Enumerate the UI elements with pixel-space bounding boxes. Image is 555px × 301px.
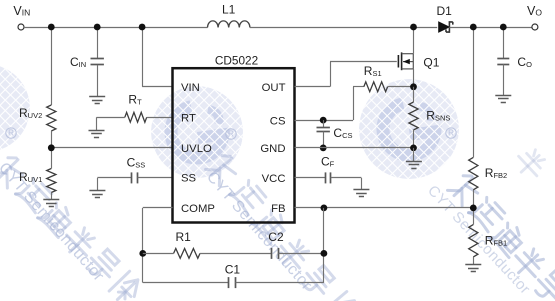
wire FB net [295, 207, 474, 209]
capacitor CF [326, 172, 331, 183]
watermark hanzi run right [447, 172, 482, 207]
svg-text:D1: D1 [437, 4, 453, 18]
resistor RS1 [364, 82, 388, 92]
junction source node [410, 83, 417, 90]
svg-text:R1: R1 [176, 230, 192, 244]
junction GND-RSNS [410, 145, 417, 152]
wire COMP left [143, 207, 173, 209]
wire CCS top [323, 120, 325, 127]
resistor RUV2 [47, 105, 56, 131]
wire R1 left [143, 253, 174, 255]
watermark logo circle center [151, 86, 243, 178]
resistor RUV1 [47, 169, 56, 193]
capacitor CSS [132, 172, 138, 183]
svg-text:Q1: Q1 [423, 55, 439, 69]
wire Q1 source [413, 69, 415, 87]
ground CSS [97, 178, 99, 191]
ground CIN [89, 97, 105, 104]
wire CIN top [97, 27, 99, 59]
terminal VO [532, 24, 538, 30]
wire CSS left [97, 177, 131, 179]
inductor L1 [208, 21, 250, 28]
svg-text:R: R [228, 130, 234, 139]
wire CO bottom [503, 64, 505, 95]
wire CCS bottom [323, 132, 325, 148]
watermark logo circle right [359, 79, 459, 179]
wire top rail left [24, 27, 208, 29]
junction UVLO divider [48, 144, 55, 151]
wire VO to RFB2 [473, 27, 475, 157]
resistor RFB1 [469, 225, 478, 257]
junction Q1 drain [410, 24, 417, 31]
wire GND net [295, 147, 414, 149]
wire CSS right [138, 177, 173, 179]
watermark hanzi run center [206, 152, 242, 187]
wire VCC right [331, 177, 362, 179]
wire VIN feed [142, 27, 144, 87]
diode D1 [439, 22, 453, 32]
capacitor C2 [272, 248, 279, 259]
wire RSNS bottom [413, 130, 415, 148]
svg-text:R: R [8, 129, 14, 138]
junction CO [500, 24, 507, 31]
ground CF [353, 190, 369, 197]
wire RUV1 to ground [51, 193, 53, 200]
junction C2 right [321, 250, 328, 257]
svg-text:C2: C2 [268, 230, 284, 244]
svg-text:CD5022: CD5022 [215, 54, 258, 68]
wire RSNS top [413, 87, 415, 102]
wire RS1 to source [388, 86, 414, 88]
svg-text:RT: RT [181, 113, 196, 125]
junction FB divider [470, 205, 477, 212]
wire GND stub [413, 148, 415, 161]
resistor RFB2 [469, 157, 478, 189]
svg-text:VCC: VCC [262, 173, 286, 185]
terminal VIN [18, 24, 24, 30]
wire top rail right [449, 27, 532, 29]
op-amp U1 CD5022 box [173, 68, 295, 222]
svg-text:R: R [448, 129, 454, 138]
ground RUV1 [43, 200, 59, 207]
wire C1 right [236, 282, 324, 284]
wire R1 to C2 [200, 253, 272, 255]
transistor Q1 [398, 52, 413, 70]
svg-text:SS: SS [181, 173, 197, 185]
svg-text:OUT: OUT [262, 82, 286, 94]
svg-text:FB: FB [271, 203, 285, 215]
resistor RSNS [409, 102, 418, 130]
svg-text:VIN: VIN [181, 82, 200, 94]
wire CS net [295, 120, 354, 122]
junction CCS top [320, 117, 327, 124]
watermark logo circle left [0, 64, 30, 152]
wire CO top [503, 27, 505, 59]
svg-text:UVLO: UVLO [181, 143, 212, 155]
ground CO [495, 96, 511, 103]
wire RFB1 to ground [473, 257, 475, 265]
junction CCS bottom [320, 145, 327, 152]
wire VIN to RUV2 [51, 27, 53, 105]
junction VIN-RUV2 [48, 24, 55, 31]
wire RUV2 to node [51, 131, 53, 169]
junction VO-RFB2 [470, 24, 477, 31]
capacitor CCS [317, 128, 330, 132]
ground RFB1 [465, 265, 481, 272]
capacitor CO [497, 59, 509, 65]
junction R1 left [139, 250, 146, 257]
wire OUT to gate [295, 86, 331, 88]
junction FB branch [321, 205, 328, 212]
wire C2 right [279, 253, 324, 255]
wire UVLO net [51, 147, 172, 149]
wire C1 left [143, 282, 229, 284]
svg-text:GND: GND [260, 143, 285, 155]
watermark registered marks [6, 128, 16, 138]
svg-text:C1: C1 [225, 263, 241, 277]
wire RT right [147, 117, 173, 119]
resistor RT [125, 112, 147, 122]
svg-text:CS: CS [270, 115, 286, 127]
wire FB down [323, 208, 325, 283]
junction CIN [94, 24, 101, 31]
junction VIN feed [139, 24, 146, 31]
svg-text:COMP: COMP [181, 203, 215, 215]
wire VCC left [295, 177, 326, 179]
wire CIN bottom [97, 65, 99, 97]
capacitor CIN [91, 59, 104, 65]
capacitor C1 [229, 277, 236, 288]
ground RT [96, 117, 98, 130]
svg-text:L1: L1 [222, 2, 236, 16]
wire RT left [97, 117, 125, 119]
watermark hanzi run left [0, 154, 28, 189]
wire Q1 drain [413, 27, 415, 54]
wire RFB2 to node [473, 190, 475, 225]
wire top rail mid [250, 27, 437, 29]
resistor R1 [174, 248, 200, 258]
ground GND pin [406, 162, 422, 169]
